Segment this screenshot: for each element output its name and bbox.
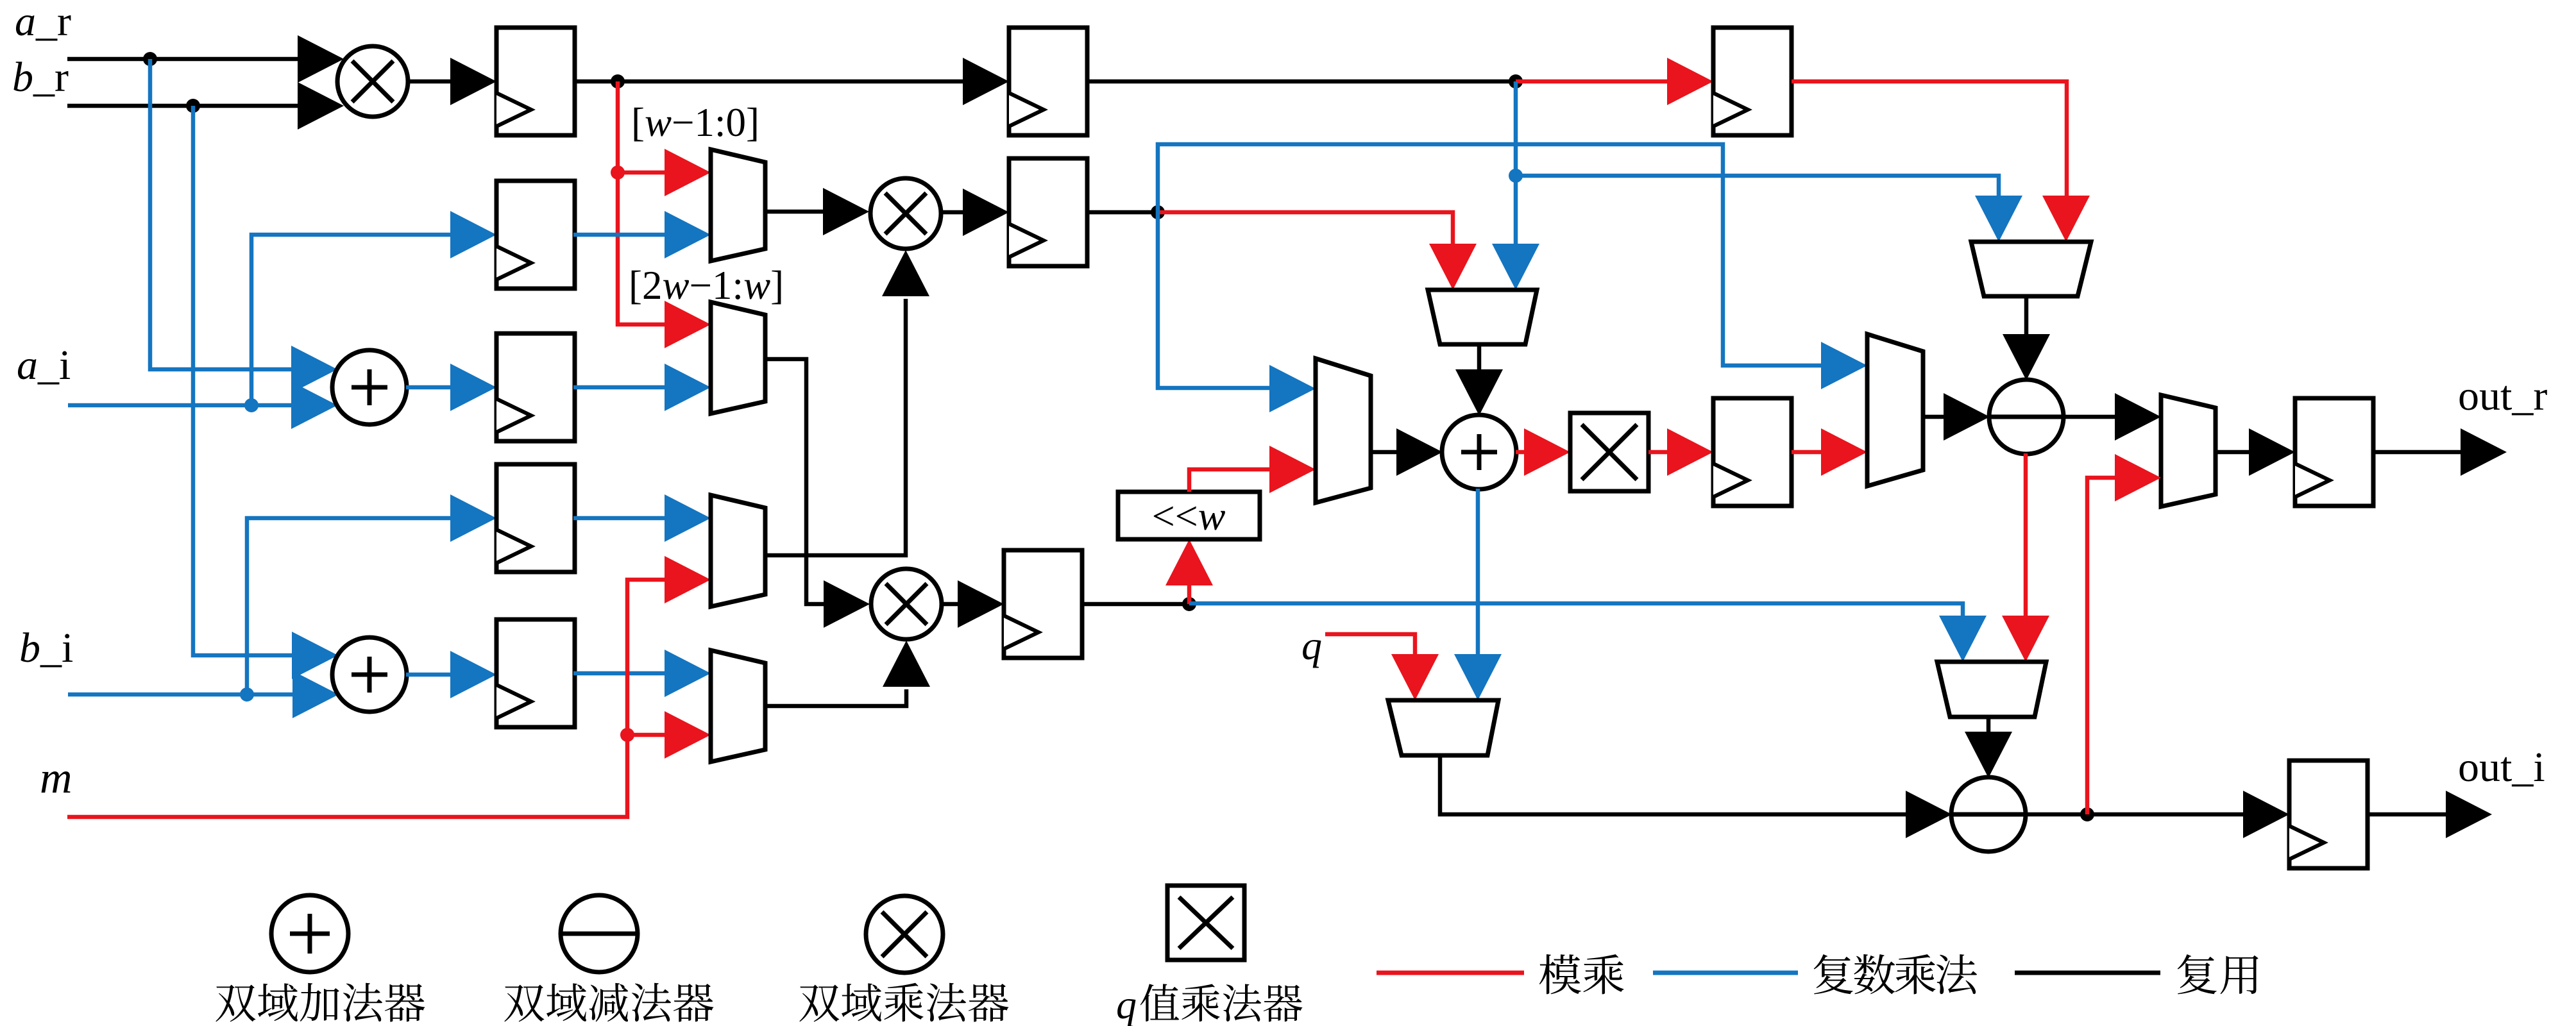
wire R2 output: [573, 211, 711, 258]
node b_i junction: [240, 687, 254, 702]
svg-text:q: q: [1116, 982, 1137, 1026]
svg-text:[2w−1:w]: [2w−1:w]: [629, 263, 784, 308]
wire R4 output: [573, 494, 711, 542]
wire T4 to S2: [1965, 717, 2012, 778]
wire X3 to M2 lower input: [765, 250, 929, 555]
wire out_i: [2368, 791, 2492, 838]
outmux T4: [1937, 662, 2046, 717]
modmux T1: [1428, 290, 1537, 344]
legend black line: [2015, 971, 2160, 975]
legend subtractor label: [504, 983, 713, 1022]
wire QM to R9 red: [1648, 428, 1713, 476]
legend multiplier label: [799, 983, 1008, 1022]
register R1: [496, 28, 575, 135]
register R4: [496, 464, 575, 572]
node a_r input label: [15, 0, 71, 45]
subtractor S2: [1951, 777, 2026, 852]
wire b_i: [68, 671, 339, 718]
legend red line: [1377, 971, 1524, 975]
register R10: [2295, 398, 2373, 506]
register R3: [496, 333, 575, 441]
wire R6 output: [1087, 210, 1158, 215]
wire top red to R8: [1516, 58, 1713, 105]
wire R1 tap red vertical: [618, 81, 711, 348]
qmux T3: [1388, 700, 1498, 755]
legend multiplier symbol: [866, 896, 943, 973]
register R5: [496, 619, 575, 727]
multiplier M1: [337, 46, 408, 117]
legend blue label 复数乘法: [1814, 954, 1977, 994]
node top junction: [1509, 74, 1523, 88]
svg-text:b_r: b_r: [12, 54, 69, 101]
wire q red: [1325, 634, 1439, 700]
wire R7 output: [1082, 602, 1189, 607]
wire X5 to A3: [1371, 428, 1443, 476]
node a_i input label: [17, 342, 71, 389]
modmux T2: [1971, 242, 2091, 296]
wire R3 output: [573, 364, 711, 411]
svg-text:a_r: a_r: [15, 0, 71, 45]
wire R5t output: [1087, 80, 1516, 84]
wire S2 output: [2025, 791, 2289, 838]
node a_i junction: [244, 398, 258, 412]
wire a_i to R2: [251, 211, 496, 405]
wire a_i: [68, 382, 337, 429]
register R8: [1713, 28, 1792, 135]
svg-text:b_i: b_i: [19, 625, 73, 671]
adder A3: [1442, 415, 1516, 489]
register R6: [1009, 158, 1087, 266]
wire M3 to R7: [943, 580, 1004, 628]
node R7 output junction: [1182, 597, 1196, 611]
wire X1 to M2: [765, 188, 869, 235]
wire R6 red to modmux T1: [1158, 212, 1477, 290]
register R2: [496, 181, 575, 289]
mux X9: [2161, 395, 2216, 507]
wire R1 output: [573, 58, 1009, 105]
legend adder symbol: [271, 895, 348, 972]
node R1 output junction: [611, 74, 625, 88]
node a_r junction: [143, 52, 157, 66]
node m junction: [620, 728, 634, 742]
multiplier M3: [871, 569, 942, 639]
wire A3 to QM red: [1516, 428, 1570, 476]
wire X8 to S1: [1923, 393, 1990, 441]
legend black label 复用: [2178, 954, 2258, 994]
wire A3 blue down to qmux T3: [1454, 489, 1502, 700]
wire X2 to M3: [765, 359, 870, 628]
register R9: [1713, 398, 1792, 506]
mux X1: [711, 149, 765, 261]
wire S1 red down to out_i mux T4: [2002, 453, 2049, 662]
wire out_r: [2373, 428, 2507, 476]
wire A1 to R3: [406, 364, 496, 411]
svg-text:m: m: [40, 753, 72, 803]
wire R9 to mux X8 red: [1792, 428, 1867, 476]
wire M1 to R1: [409, 58, 496, 105]
register R11: [2289, 761, 2368, 868]
node b_r input label: [12, 54, 69, 101]
wire blue down to modmux T1: [1492, 176, 1539, 290]
node q input label: [1301, 623, 1322, 668]
node out_i junction: [2080, 807, 2094, 821]
svg-text:a_i: a_i: [17, 342, 71, 389]
wire a_r: [67, 35, 344, 83]
wire T2 to S1: [2003, 296, 2050, 380]
wire T3 to subtractor S2: [1440, 755, 1952, 838]
wire R6 blue down to mux X5: [1158, 212, 1316, 412]
wire blue to modmux T2: [1516, 176, 2022, 242]
legend subtractor symbol: [561, 895, 638, 972]
multiplier M2: [870, 178, 941, 249]
legend q-multiplier symbol: [1167, 886, 1244, 960]
adder A2: [332, 637, 407, 712]
node out_r output label: [2458, 373, 2547, 419]
mux X2: [711, 302, 765, 414]
label [2w-1:w]: [629, 263, 784, 308]
wire X9 to R10: [2216, 428, 2295, 476]
label [w-1:0]: [631, 100, 759, 145]
node out_i output label: [2458, 744, 2545, 791]
adder A1: [332, 350, 407, 425]
node blue junction: [1509, 169, 1523, 183]
wire b_r: [67, 82, 344, 130]
register R5t: [1009, 28, 1087, 135]
legend red label 模乘: [1539, 954, 1624, 994]
q-multiplier QM: [1570, 413, 1648, 491]
node b_r junction: [186, 99, 200, 113]
wire m: [67, 556, 711, 817]
shifter <<w box: [1118, 492, 1260, 539]
wire T1 to A3: [1455, 344, 1503, 416]
wire R6 blue up to mux X8: [1158, 144, 1867, 389]
wire shifter to mux X5 red: [1189, 446, 1316, 493]
wire R7 red up to shifter: [1165, 539, 1213, 604]
wire X4 to M3 lower input: [765, 641, 930, 706]
wire M2 to R6: [942, 189, 1009, 236]
wire A2 to R5: [406, 651, 496, 698]
svg-text:[w−1:0]: [w−1:0]: [631, 100, 759, 145]
node b_i input label: [19, 625, 73, 671]
wire b_r to adder A2 (blue): [193, 106, 338, 679]
svg-text:q: q: [1301, 623, 1322, 668]
legend blue line: [1653, 971, 1798, 975]
wire R8 output red to modmux T2: [1792, 81, 2090, 242]
wire red tap to mux X1: [618, 149, 711, 196]
register R7: [1004, 550, 1082, 658]
legend q-multiplier label: [1116, 982, 1302, 1026]
subtractor S1: [1989, 380, 2063, 454]
node red tap junction: [611, 165, 625, 180]
mux X8: [1867, 334, 1923, 486]
legend adder label: [216, 983, 425, 1022]
svg-text:<<w: <<w: [1152, 493, 1226, 539]
wire R5 output: [573, 650, 711, 697]
svg-text:out_r: out_r: [2458, 373, 2547, 419]
wire b_i to R4: [247, 494, 496, 694]
wire S1 to mux X9: [2063, 393, 2161, 441]
wire out_i red feedback to mux X9: [2087, 454, 2161, 814]
node R6 output junction: [1151, 205, 1165, 219]
mux X4: [711, 650, 765, 762]
node m input label: [40, 753, 72, 803]
wire top blue down: [1514, 81, 1518, 176]
wire R7 blue to out_i mux T4: [1189, 603, 1987, 662]
wire a_r to adder A1 (blue): [150, 59, 337, 393]
mux X3: [711, 495, 765, 607]
mux X5: [1316, 358, 1371, 503]
svg-text:out_i: out_i: [2458, 744, 2545, 791]
wire m to mux X4: [627, 711, 711, 759]
